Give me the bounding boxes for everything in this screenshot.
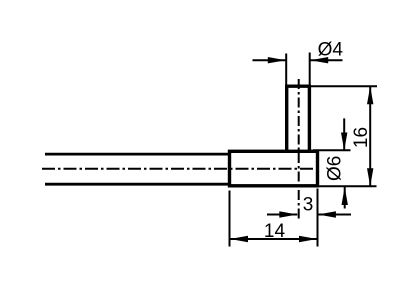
dim 3 right arrow (pointing left) (318, 211, 351, 217)
dim 14 left extension line (229, 191, 231, 247)
svg-text:Ø4: Ø4 (318, 39, 344, 60)
dim Ø4 extension line left (285, 54, 287, 85)
dim Ø4 dimension line left segment with arrow (253, 57, 286, 63)
dim 16 extension line top (311, 85, 377, 87)
dim 3 left arrow (pointing right) (267, 211, 297, 217)
dim Ø4 extension line right (309, 53, 311, 86)
svg-text:16: 16 (351, 127, 372, 148)
vertical centerline of pin (298, 79, 300, 220)
svg-text:Ø6: Ø6 (325, 156, 346, 181)
dim 16 / Ø6 shared extension line bottom (318, 185, 377, 187)
boss (large diameter section) (230, 151, 318, 186)
svg-text:3: 3 (303, 195, 314, 216)
pin (vertical stud on top) (285, 85, 311, 152)
dim 14 dimension line with arrows (230, 236, 317, 242)
dim Ø4 dimension line right segment with arrow (310, 57, 342, 63)
svg-text:14: 14 (264, 221, 286, 242)
horizontal centerline (42, 168, 322, 170)
dim Ø6 top arrow (pointing down) (341, 118, 347, 150)
dim Ø6 bottom arrow (pointing up) (342, 187, 348, 209)
shaft body (small diameter, left) (45, 154, 230, 184)
dim 3 right extension line (also for dim 14) (317, 189, 319, 247)
dim Ø6 extension line top (313, 149, 351, 151)
dim 16 dimension line with arrows (367, 86, 373, 186)
